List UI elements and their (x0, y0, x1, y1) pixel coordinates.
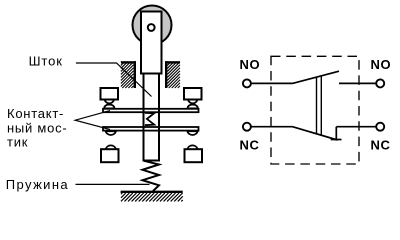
plunger rod (narrow, crosses the bridges) (144, 74, 160, 161)
NC left terminal circle (243, 123, 251, 131)
mechanical linkage (double line) (316, 77, 318, 134)
NC movable blade (closed) (293, 127, 338, 140)
NO movable blade (open) (293, 71, 340, 83)
housing block left (hatched) (121, 61, 136, 88)
plunger stem (wide upper rectangle) (141, 12, 162, 74)
upper movable contact bump left (104, 105, 114, 109)
base plate line (121, 191, 183, 193)
upper contact bridge bar (103, 109, 199, 112)
dashed enclosure box (271, 56, 359, 164)
roller (gray circle) (133, 6, 172, 45)
upper terminal right (rectangle) (184, 88, 202, 100)
svg-text:Контакт-: Контакт- (7, 106, 64, 121)
lower movable contact bump right (below bar) (187, 131, 197, 135)
upper terminal right fixed contact bump (188, 100, 197, 104)
return spring (zig-zag) (143, 161, 160, 191)
svg-text:NO: NO (371, 57, 392, 72)
pointer line from Шток to stem (76, 63, 152, 97)
lower terminal right with dome (187, 145, 197, 149)
svg-text:Пружина: Пружина (6, 177, 69, 192)
hole in stem (148, 24, 155, 31)
svg-text:ный мос-: ный мос- (7, 120, 67, 135)
lower terminal left with dome (106, 145, 116, 149)
NC right terminal circle (376, 123, 384, 131)
NC wire left (251, 126, 293, 128)
svg-text:NC: NC (371, 138, 391, 153)
upper movable contact bump right (188, 105, 198, 109)
housing block right (hatched) (165, 61, 180, 88)
NO wire right (339, 82, 376, 84)
small spring between the bridges (inside rod) (145, 113, 154, 125)
NO left terminal circle (243, 79, 251, 87)
svg-text:Шток: Шток (29, 54, 63, 69)
svg-text:NO: NO (240, 57, 261, 72)
lower contact bridge bar (103, 127, 199, 131)
pointer lines from label to both bridge bars (75, 111, 110, 130)
svg-text:тик: тик (7, 135, 28, 150)
lower movable contact bump left (below bar) (106, 131, 116, 135)
svg-text:NC: NC (240, 138, 260, 153)
base hatching (121, 193, 183, 201)
NO right terminal circle (376, 79, 384, 87)
NC fixed contact post (335, 127, 337, 141)
NO wire left (251, 82, 293, 84)
NC wire right (336, 126, 376, 128)
NC fixed contact seat tick (331, 139, 342, 141)
upper terminal left (rectangle) (101, 88, 119, 100)
upper terminal left fixed contact bump (105, 100, 114, 104)
pointer line from Пружина to spring (76, 183, 150, 185)
